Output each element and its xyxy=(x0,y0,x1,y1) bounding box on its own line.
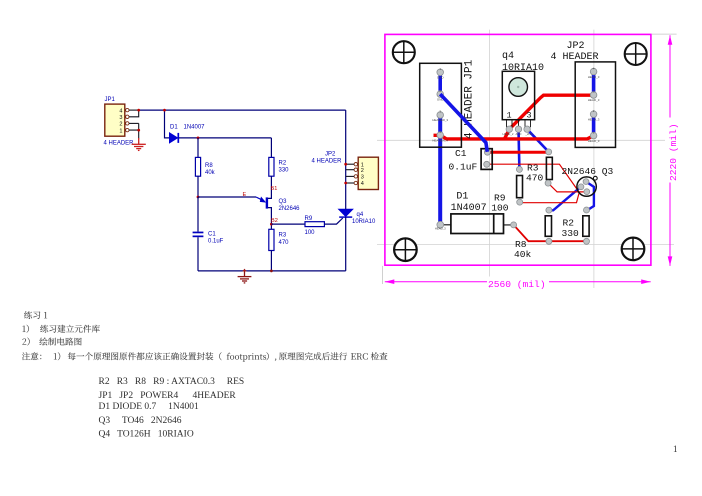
svg-text:2N2646: 2N2646 xyxy=(279,206,301,212)
svg-text:R9: R9 xyxy=(305,216,313,222)
pin 2 circle xyxy=(126,122,129,125)
resistor R9 xyxy=(305,216,325,236)
node junction JP2 pin1 xyxy=(344,163,347,166)
svg-text:2: 2 xyxy=(119,122,122,128)
svg-text:_2ND: _2ND xyxy=(524,132,532,136)
resistor R2 xyxy=(269,157,289,176)
node junction R3/rail xyxy=(270,270,273,273)
connector JP2 xyxy=(312,151,379,189)
node junction JP2 pin4 xyxy=(344,182,347,185)
JP1 pads xyxy=(437,69,444,138)
svg-text:40k: 40k xyxy=(514,249,532,260)
svg-text:Q3: Q3 xyxy=(279,199,288,205)
wire Q4 anode up / cathode down xyxy=(345,110,347,271)
svg-text:R2 R3 R8 R9 : AXTAC0.3: R2 R3 R8 R9 : AXTAC0.3 RES xyxy=(99,377,245,387)
svg-text:2560 (mil): 2560 (mil) xyxy=(488,279,546,290)
svg-text:HEAD_3: HEAD_3 xyxy=(588,75,600,79)
svg-text:E: E xyxy=(243,192,247,198)
svg-text:HEAD_3: HEAD_3 xyxy=(588,139,600,143)
svg-text:0.1uF: 0.1uF xyxy=(449,162,478,173)
svg-text:1N4007: 1N4007 xyxy=(184,125,206,131)
svg-text:HEAD_3: HEAD_3 xyxy=(588,117,600,121)
svg-text:4: 4 xyxy=(119,108,122,114)
wire bottom rail xyxy=(198,270,346,272)
wire R9 to Q4 gate xyxy=(324,218,342,224)
svg-text:Q4 TO126H 10RIAIO: Q4 TO126H 10RIAIO xyxy=(99,430,194,440)
trace blue JP1 pad2 to C1 (over red) xyxy=(440,94,487,152)
component capacitor C1 xyxy=(481,149,492,170)
Chinese document text as paths xyxy=(22,311,387,362)
wire R3 to bottom rail xyxy=(270,251,272,271)
wire E down to C1 xyxy=(197,197,199,232)
wire C1 to bottom rail xyxy=(197,237,199,271)
component resistor R3 xyxy=(546,157,552,179)
wire R8 to E node xyxy=(197,176,199,197)
trace red C1 bottom to Q3 xyxy=(487,164,579,192)
wire B2 to R9 xyxy=(271,223,305,225)
q4 pad labels xyxy=(503,132,533,136)
component q4 10RIA10 xyxy=(502,71,534,127)
dimension line 2220 mil xyxy=(665,35,679,266)
wire rail to R2 xyxy=(270,138,272,158)
svg-text:C1: C1 xyxy=(455,148,467,159)
C1 pads xyxy=(484,149,490,155)
component resistor R8 xyxy=(545,216,551,237)
JP2 pads xyxy=(590,68,597,139)
grid line horizontal 1 xyxy=(377,139,674,141)
node junction pin1 xyxy=(137,129,140,132)
q4 pads xyxy=(506,126,530,132)
wire pin2 xyxy=(129,122,139,124)
dimension line 2560 mil xyxy=(385,277,651,291)
node junction rail/JP1 xyxy=(137,109,140,112)
trace blue q4 pad2 to R9 xyxy=(517,129,521,169)
svg-text:D1: D1 xyxy=(456,191,468,202)
ground (JP1) xyxy=(132,138,146,150)
svg-text:10RIA10: 10RIA10 xyxy=(502,63,544,74)
trace red R9 bottom to Q3 xyxy=(520,192,580,203)
component diode D1 xyxy=(444,214,511,234)
svg-text:2N2646 Q3: 2N2646 Q3 xyxy=(562,166,614,177)
JP1 pad name labels xyxy=(432,67,448,142)
svg-text:q4: q4 xyxy=(502,51,514,62)
wire Q3 B2 lead down xyxy=(268,208,272,230)
trace red main horizontal xyxy=(434,135,594,139)
resistor R8 xyxy=(195,157,215,176)
svg-text:HEADER_3: HEADER_3 xyxy=(432,118,448,122)
svg-text:q4: q4 xyxy=(357,212,364,218)
svg-text:330: 330 xyxy=(279,168,290,174)
trace blue Q3 top to R2 top xyxy=(586,182,594,211)
board outline xyxy=(385,34,651,265)
svg-text:HEADER_4: HEADER_4 xyxy=(432,138,448,142)
svg-text:3: 3 xyxy=(361,175,364,181)
svg-text:Q3 TO46 2N2646: Q3 TO46 2N2646 xyxy=(99,416,182,426)
JP2 pin 3 circle xyxy=(354,175,357,178)
trace blue Q3 left to R8 top xyxy=(549,187,581,210)
svg-text:HEAD_3: HEAD_3 xyxy=(435,227,446,231)
dimension extension bottom left xyxy=(382,266,384,284)
svg-text:D1: D1 xyxy=(170,125,178,131)
trace red q4 pad1 elbow to JP2 xyxy=(505,95,594,139)
thyristor Q4 (10RIA10) xyxy=(339,209,376,225)
node junction B2/R9 xyxy=(270,223,273,226)
JP2 pin 2 circle xyxy=(354,168,357,171)
trace red D1 to R8 to R2 xyxy=(514,225,587,241)
trace blue JP2 pad2-pad1 xyxy=(592,114,596,135)
wire top rail xyxy=(139,109,346,111)
JP2 pad labels xyxy=(588,66,600,143)
svg-text:1: 1 xyxy=(673,444,678,454)
pin 4 circle xyxy=(126,108,129,111)
svg-text:3: 3 xyxy=(527,110,532,120)
svg-text:R2: R2 xyxy=(279,160,287,166)
D1 pads xyxy=(437,221,444,228)
pin 1 circle xyxy=(126,128,129,131)
svg-text:1: 1 xyxy=(507,110,512,120)
connector JP1 xyxy=(104,97,135,146)
svg-text:HEAD_2: HEAD_2 xyxy=(503,132,514,136)
component resistor R9 xyxy=(517,176,523,198)
component outline JP1 xyxy=(420,63,462,147)
grid line horizontal 2 xyxy=(377,244,674,246)
svg-text:R8: R8 xyxy=(205,163,213,169)
node junction R8 top xyxy=(197,137,200,140)
transistor Q3 (UJT 2N2646) xyxy=(256,197,300,213)
svg-text:GND: GND xyxy=(437,76,445,80)
mounting hole bottom-left xyxy=(394,238,417,261)
svg-text:JP1 JP2 POWER4 4HEADE: JP1 JP2 POWER4 4HEADER xyxy=(99,391,237,401)
svg-text:4: 4 xyxy=(361,181,364,187)
trace red C1 top to R3 top xyxy=(487,151,548,154)
trace blue JP1 pad1-pad2 xyxy=(438,72,442,94)
svg-text:40k: 40k xyxy=(205,170,216,176)
component transistor Q3 xyxy=(577,176,597,196)
svg-text:D1 DIODE 0.7 1N4001: D1 DIODE 0.7 1N4001 xyxy=(99,402,200,412)
wire R2 to Q3 B1 xyxy=(268,176,272,198)
resistor R3 xyxy=(269,229,289,250)
dimension extension top right xyxy=(652,33,677,35)
svg-text:R2: R2 xyxy=(563,218,575,229)
trace red R3 bottom to Q3 xyxy=(548,183,584,192)
svg-text:HEAD_3: HEAD_3 xyxy=(588,98,600,102)
component resistor R2 xyxy=(583,216,589,237)
node junction D1 branch xyxy=(163,109,166,112)
grid line vertical 1 xyxy=(489,30,491,288)
JP2 pin 4 circle xyxy=(354,181,357,184)
svg-text:C1: C1 xyxy=(208,231,216,237)
svg-text:1N4007: 1N4007 xyxy=(451,203,487,214)
mounting hole top-right xyxy=(625,43,647,65)
svg-text:470: 470 xyxy=(279,240,290,246)
svg-text:JP2: JP2 xyxy=(567,41,585,52)
capacitor C1 xyxy=(193,231,224,244)
svg-text:4 HEADER: 4 HEADER xyxy=(104,141,135,147)
wire D1 branch down xyxy=(165,110,170,138)
svg-text:B1: B1 xyxy=(271,186,278,192)
svg-text:JP2: JP2 xyxy=(325,151,336,157)
svg-text:JP1: JP1 xyxy=(105,97,116,103)
diode D1 xyxy=(170,125,206,143)
svg-text:10RIA10: 10RIA10 xyxy=(352,219,376,225)
svg-text:R3: R3 xyxy=(279,233,287,239)
svg-text:3: 3 xyxy=(119,115,122,121)
wire E to Q3 emitter xyxy=(198,196,256,198)
svg-text:100: 100 xyxy=(491,203,509,214)
component outline JP2 xyxy=(575,62,615,147)
wire pin1 to ground xyxy=(129,123,139,138)
pin 3 circle xyxy=(126,115,129,118)
node junction ground tap xyxy=(242,269,246,272)
svg-text:1: 1 xyxy=(119,128,122,134)
svg-text:4 HEADER: 4 HEADER xyxy=(312,159,343,165)
svg-text:100: 100 xyxy=(305,230,316,236)
grid line vertical 2 xyxy=(593,30,595,288)
trace blue JP2 pad4-pad3 xyxy=(592,72,596,95)
wire pin4 to rail xyxy=(129,109,139,111)
svg-text:2: 2 xyxy=(361,168,364,174)
trace blue JP1 pad3-pad4-D1 xyxy=(438,115,442,225)
JP2 pin 1 circle xyxy=(354,163,357,166)
wire down to R8 xyxy=(197,138,199,158)
svg-text:2220 (mil): 2220 (mil) xyxy=(668,123,679,181)
mounting hole top-left xyxy=(393,41,415,63)
wires JP2 pins to bus xyxy=(346,164,354,183)
mounting hole bottom-right xyxy=(622,238,645,261)
node E junction xyxy=(197,196,200,199)
svg-text:330: 330 xyxy=(562,228,580,239)
wire pin3 up to pin4 net xyxy=(129,110,139,117)
wire D1 to node xyxy=(179,137,271,139)
ground (bottom rail) xyxy=(238,271,252,283)
trace blue q4 pad3 to R3 xyxy=(527,129,549,152)
svg-text:4 HEADER: 4 HEADER xyxy=(551,52,599,63)
svg-text:AND: AND xyxy=(516,132,522,136)
svg-text:470: 470 xyxy=(526,173,544,184)
svg-text:0.1uF: 0.1uF xyxy=(208,239,224,245)
